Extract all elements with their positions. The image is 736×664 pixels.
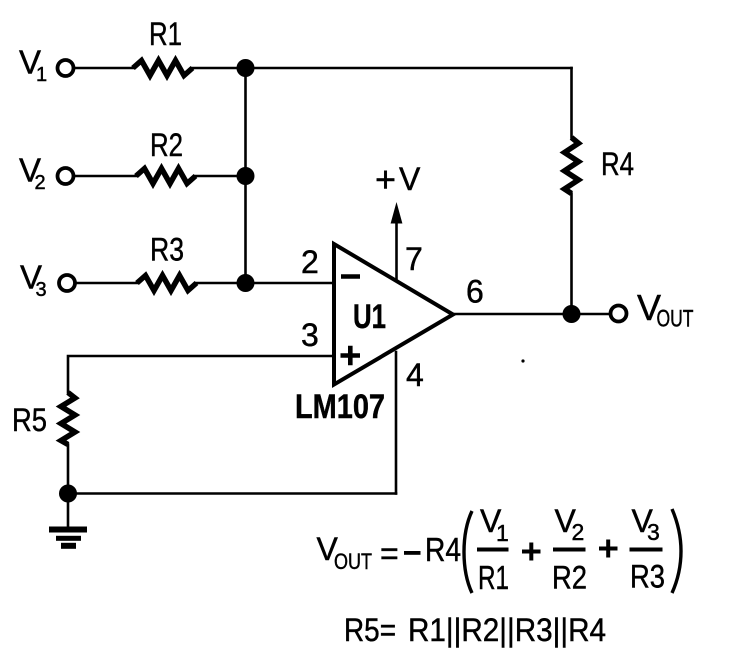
svg-text:6: 6 — [466, 274, 484, 310]
svg-text:OUT: OUT — [334, 549, 372, 574]
svg-text:V: V — [399, 161, 421, 197]
svg-text:2: 2 — [572, 519, 585, 545]
svg-text:R1: R1 — [478, 559, 509, 596]
svg-text:3: 3 — [301, 317, 319, 353]
svg-text:LM107: LM107 — [295, 388, 385, 426]
svg-text:R4: R4 — [601, 146, 634, 182]
svg-text:+: + — [375, 159, 396, 200]
svg-text:R2: R2 — [150, 127, 183, 163]
svg-text:2: 2 — [35, 172, 46, 194]
svg-text:2: 2 — [301, 244, 319, 280]
svg-text:1: 1 — [496, 520, 509, 546]
svg-text:R3: R3 — [150, 232, 184, 268]
svg-text:7: 7 — [405, 241, 423, 277]
svg-text:R5: R5 — [12, 402, 47, 438]
svg-text:R4: R4 — [425, 531, 461, 568]
svg-text:4: 4 — [406, 357, 424, 393]
svg-text:R1||R2||R3||R4: R1||R2||R3||R4 — [408, 612, 606, 648]
svg-text:R1: R1 — [149, 16, 182, 52]
svg-text:1: 1 — [36, 64, 47, 86]
svg-text:OUT: OUT — [657, 306, 694, 333]
svg-text:=: = — [380, 536, 399, 572]
svg-text:R5=: R5= — [344, 612, 396, 648]
svg-text:R2: R2 — [552, 560, 587, 596]
svg-text:U1: U1 — [353, 298, 386, 336]
svg-text:R3: R3 — [630, 559, 665, 595]
svg-text:3: 3 — [647, 519, 660, 545]
svg-text:3: 3 — [36, 279, 47, 301]
